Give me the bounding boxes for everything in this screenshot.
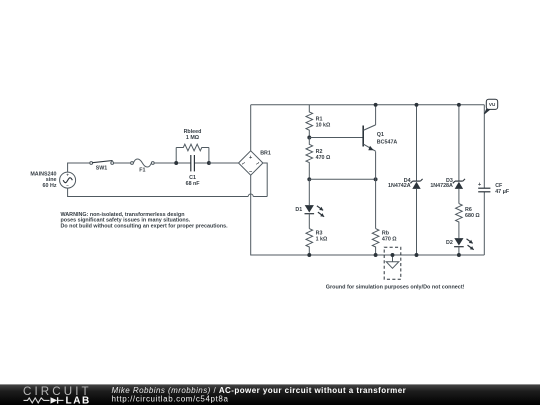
resistor R6 <box>456 204 481 239</box>
LED D2 <box>446 238 474 255</box>
svg-text:Do not build without consultin: Do not build without consulting an exper… <box>61 224 229 230</box>
resistor Rb <box>372 229 397 255</box>
bridge rectifier BR1 <box>239 151 271 176</box>
svg-text:1 kΩ: 1 kΩ <box>316 236 328 242</box>
svg-text:68 nF: 68 nF <box>186 181 201 187</box>
transistor Q1 <box>363 105 397 151</box>
logo resistor/diode glyph <box>24 398 50 403</box>
footer bar <box>0 384 540 405</box>
voltage source MAINS240 <box>60 172 76 188</box>
node Rbleed/C1 left <box>174 161 178 165</box>
svg-text:LAB: LAB <box>66 395 91 405</box>
wire BR1 minus to bottom rail <box>251 175 310 255</box>
svg-text:SW1: SW1 <box>96 166 108 172</box>
wire BR1 AC2 return <box>263 163 267 197</box>
svg-text:D2: D2 <box>446 240 453 246</box>
svg-text:1 MΩ: 1 MΩ <box>186 135 200 141</box>
node R2 bottom <box>307 177 311 181</box>
svg-text:1N4728A: 1N4728A <box>430 183 453 189</box>
switch SW1 <box>90 161 114 172</box>
zener diode D4 <box>388 105 423 255</box>
svg-text:BR1: BR1 <box>260 151 271 157</box>
wire source top to SW1 <box>68 163 90 172</box>
svg-text:VU: VU <box>489 102 496 107</box>
wire DC top rail <box>251 104 485 106</box>
svg-text:10 kΩ: 10 kΩ <box>316 123 331 129</box>
wire R2 bottom to emitter column <box>309 178 375 180</box>
node R3 bottom <box>307 253 311 257</box>
node Q1 collector on rail <box>374 103 378 107</box>
wire base node to Q1 <box>309 137 363 139</box>
node emitter/Rb <box>374 177 378 181</box>
node D4 top <box>415 103 419 107</box>
wire source bottom rail <box>68 188 249 197</box>
svg-text:http://circuitlab.com/c54pt8a: http://circuitlab.com/c54pt8a <box>112 395 229 404</box>
svg-text:D1: D1 <box>295 207 302 213</box>
svg-text:47 μF: 47 μF <box>495 189 510 195</box>
capacitor CF <box>478 182 510 195</box>
wire BR1 plus to top rail <box>250 105 252 151</box>
svg-text:60 Hz: 60 Hz <box>43 183 57 189</box>
wire DC bottom rail <box>309 254 484 256</box>
node Rbleed/C1 right <box>207 161 211 165</box>
svg-text:680 Ω: 680 Ω <box>465 213 480 219</box>
wire SW1 to F1 <box>114 162 131 164</box>
svg-text:BC547A: BC547A <box>377 139 398 145</box>
capacitor C1 <box>176 155 209 187</box>
node R1/R2/base <box>307 136 311 140</box>
wire right rail bottom <box>483 192 485 255</box>
LED D1 <box>295 179 324 228</box>
wire emitter down <box>375 151 377 228</box>
voltmeter flag VU <box>484 99 497 114</box>
resistor R3 <box>306 229 328 255</box>
resistor Rbleed <box>176 129 209 163</box>
zener diode D3 <box>430 105 465 204</box>
wire D1 to R3 <box>308 214 310 229</box>
ground (simulation only) <box>384 247 401 279</box>
resistor R2 <box>306 138 331 180</box>
wire AC bottom hop over BR1 minus <box>248 194 253 197</box>
node Rb bottom <box>374 253 378 257</box>
svg-text:1N4742A: 1N4742A <box>388 183 411 189</box>
svg-text:Q1: Q1 <box>377 132 384 138</box>
svg-text:470 Ω: 470 Ω <box>316 155 331 161</box>
svg-text:Mike Robbins (mrobbins) / AC-p: Mike Robbins (mrobbins) / AC-power your … <box>112 386 407 395</box>
node D3 top <box>457 103 461 107</box>
wire F1 to node <box>154 162 176 164</box>
node D4 bottom <box>415 253 419 257</box>
wire C1 to BR1 <box>209 162 239 164</box>
svg-text:Ground for simulation purposes: Ground for simulation purposes only/Do n… <box>326 284 465 290</box>
resistor R1 <box>306 105 331 138</box>
node ground tap <box>391 253 395 257</box>
node D2 bottom <box>457 253 461 257</box>
fuse F1 <box>131 159 155 174</box>
svg-text:470 Ω: 470 Ω <box>382 236 397 242</box>
svg-text:F1: F1 <box>139 168 145 174</box>
wire right rail top <box>483 105 485 188</box>
